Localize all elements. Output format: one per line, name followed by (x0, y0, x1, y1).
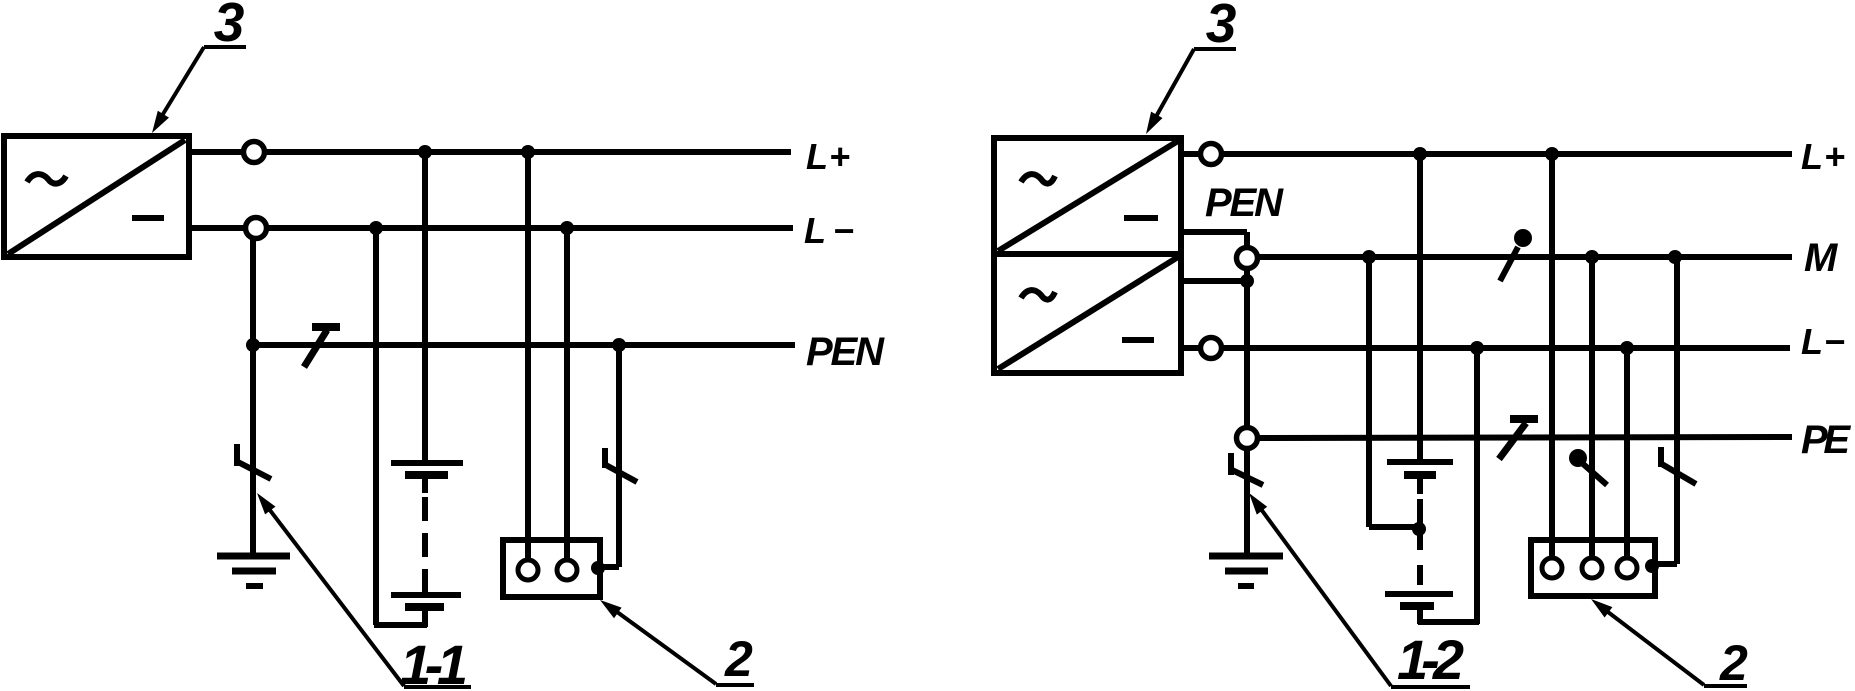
label 3 with leader arrow (right) (1146, 0, 1236, 134)
earthing conductor wire (left, from L- terminal down to earth) (246, 238, 260, 556)
terminal L+ (right) (1181, 144, 1222, 165)
terminal M (right) (1237, 248, 1258, 269)
battery negative branch wire (left diagram, from L- down and under battery) (369, 221, 427, 625)
svg-text:M: M (1804, 236, 1839, 280)
battery mid-tap wire from M (right) (1362, 250, 1426, 536)
wire L- (left) (267, 225, 794, 231)
battery B1 (left) (391, 463, 463, 627)
wire L- (right) (1222, 345, 1791, 351)
PEN conductor mark (T-slash on PEN line) (304, 327, 340, 367)
svg-text:L−: L− (1801, 321, 1845, 362)
wire L+ (right) (1222, 151, 1793, 157)
PEN branch wire to load (left) (591, 338, 626, 575)
protective conductor stroke mark on that branch (right) (1660, 447, 1696, 484)
earthing conductor stroke mark (right) (1230, 453, 1263, 485)
protective branch wire from M to load body (right) (1645, 250, 1682, 573)
load equipment 2 (right box with three terminals) (1531, 540, 1655, 596)
mid-point conductor mark on load M branch (dot + slash) (1569, 449, 1607, 485)
load branch wire from L+ (right) (1545, 147, 1559, 558)
terminal PE (right) (1237, 428, 1258, 449)
terminal L+ (left) (189, 142, 265, 163)
svg-text:2: 2 (724, 631, 753, 687)
battery positive wire from L+ (right) (1413, 147, 1427, 462)
terminal L- (left) (189, 218, 267, 239)
label 2 with leader arrow (left) (600, 600, 754, 687)
svg-text:PEN: PEN (1205, 181, 1284, 225)
earth electrode (right ground symbol) (1209, 556, 1283, 586)
svg-text:1-2: 1-2 (1397, 628, 1464, 691)
terminal L- (right) (1181, 338, 1222, 359)
svg-text:L+: L+ (1801, 136, 1845, 177)
battery negative wire to L- (right) (1418, 341, 1484, 624)
PEN bus from converter mid outputs (right) (1181, 232, 1254, 556)
label 1-1 with leader arrow (257, 493, 471, 691)
label 3 with leader arrow (left) (152, 0, 246, 133)
protective conductor stroke mark on PEN branch (left) (604, 448, 637, 482)
load branch wire from L- (right) (1620, 341, 1634, 558)
PE conductor mark (T-slash on PE wire) (1499, 419, 1538, 459)
battery positive branch wire (left diagram, from L+ down to battery) (418, 145, 432, 462)
earthing conductor stroke mark (left) (236, 444, 271, 479)
svg-text:L+: L+ (806, 136, 850, 177)
svg-text:PEN: PEN (806, 330, 885, 374)
load branch wire from L+ (left) (521, 145, 535, 560)
mid-point conductor mark on M wire (dot + slash) (1500, 229, 1532, 281)
wire PEN (left) (253, 342, 795, 348)
earth electrode (left ground symbol) (217, 556, 290, 586)
converter 3 (left AC/DC rectifier box) (4, 136, 189, 257)
svg-text:PE: PE (1801, 418, 1851, 462)
svg-text:3: 3 (1206, 0, 1237, 54)
converter 3 (right rectifier, two stacked units) (994, 138, 1181, 373)
battery B2 (right, with mid tap) (1385, 462, 1453, 624)
load branch wire from M (right) (1585, 250, 1599, 558)
wire M (right) (1258, 254, 1793, 260)
wire PE (right) (1258, 437, 1793, 438)
svg-text:2: 2 (1719, 635, 1748, 691)
svg-text:1-1: 1-1 (400, 633, 468, 691)
load equipment 2 (left box with two terminals) (503, 540, 600, 597)
label 1-2 with leader arrow (1249, 493, 1470, 691)
label 2 with leader arrow (right) (1591, 599, 1748, 691)
load branch wire from L- (left) (560, 221, 574, 560)
wire L+ (left) (265, 149, 792, 155)
